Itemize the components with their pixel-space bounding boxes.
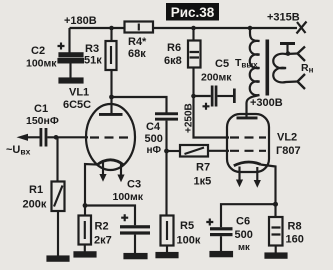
- svg-text:VL1: VL1: [69, 87, 89, 99]
- ground (C6): [211, 252, 233, 256]
- svg-text:+180В: +180В: [64, 15, 97, 27]
- VL1 heater arrows: [99, 163, 124, 183]
- wire +250V to screen grid g2: [194, 96, 230, 138]
- svg-text:68к: 68к: [128, 48, 146, 60]
- svg-text:R2: R2: [95, 221, 109, 233]
- VL1 grid (dashed): [90, 136, 131, 138]
- node R6 top junction dot: [191, 26, 196, 31]
- svg-text:2к7: 2к7: [94, 235, 112, 247]
- ground (R5): [157, 253, 178, 257]
- transformer primary winding: [247, 28, 260, 117]
- svg-text:R1: R1: [29, 184, 43, 196]
- svg-text:6С5С: 6С5С: [63, 99, 91, 111]
- svg-text:100к: 100к: [177, 235, 201, 247]
- VL2 cathode: [234, 162, 261, 166]
- capacitor C2: [58, 28, 84, 79]
- resistor R6: [188, 28, 201, 96]
- svg-text:6к8: 6к8: [164, 55, 182, 67]
- resistor R7: [167, 145, 230, 157]
- svg-text:150нФ: 150нФ: [26, 115, 59, 127]
- resistor R2: [79, 206, 92, 253]
- svg-text:R8: R8: [288, 221, 302, 233]
- resistor R1: [52, 137, 65, 256]
- svg-text:Рис.38: Рис.38: [171, 5, 215, 20]
- node cathode/C6/R8 junction dot: [273, 202, 278, 207]
- resistor R3: [106, 28, 117, 97]
- svg-text:160: 160: [286, 234, 304, 246]
- resistor R4: [125, 22, 154, 33]
- svg-text:R5: R5: [180, 220, 194, 232]
- title Pic.38: [166, 3, 219, 21]
- tube VL1 envelope: [86, 104, 135, 170]
- ground (C3): [125, 254, 147, 258]
- capacitor C4 with wire from VL1 anode: [112, 97, 179, 151]
- node cathode/R2/C3 junction dot: [83, 203, 88, 208]
- resistor R5: [161, 151, 174, 253]
- capacitor C5: [194, 86, 236, 110]
- VL2 heater arrows: [236, 167, 261, 188]
- svg-text:51к: 51к: [84, 55, 102, 67]
- node C1/grid junction dot: [54, 135, 59, 140]
- connector +315V: [297, 22, 307, 34]
- svg-text:100мк: 100мк: [26, 58, 57, 70]
- svg-text:+250В: +250В: [184, 103, 195, 133]
- connector Rn bottom: [298, 74, 306, 89]
- capacitor C1: [40, 128, 89, 147]
- VL1 cathode lead wire: [85, 164, 97, 206]
- node VL1 anode junction dot: [109, 95, 114, 100]
- svg-text:С3: С3: [127, 179, 141, 191]
- svg-text:нФ: нФ: [147, 145, 162, 156]
- terminal T on secondary: [280, 42, 295, 54]
- svg-text:VL2: VL2: [277, 132, 297, 144]
- wire +180V rail left: [70, 27, 125, 29]
- svg-text:200мк: 200мк: [201, 72, 232, 84]
- node +180V junction dot: [109, 26, 114, 31]
- transformer core: [266, 40, 270, 96]
- ground (C2): [60, 79, 83, 83]
- VL2 anode: [237, 117, 258, 120]
- VL2 cathode lead wire: [260, 165, 275, 205]
- ground (R8): [266, 254, 287, 258]
- ground (R1): [48, 257, 69, 261]
- svg-text:С2: С2: [31, 45, 45, 57]
- svg-text:100мк: 100мк: [113, 191, 144, 203]
- connector Rn top: [298, 47, 306, 62]
- node transformer top junction dot: [248, 26, 253, 31]
- resistor R8: [269, 204, 283, 253]
- capacitor C3: [85, 206, 150, 255]
- VL1 anode: [99, 97, 123, 116]
- svg-text:+315В: +315В: [267, 12, 300, 24]
- svg-text:мк: мк: [238, 242, 250, 253]
- transformer secondary winding: [273, 54, 297, 83]
- node +250V junction dot: [191, 94, 196, 99]
- svg-text:R7: R7: [196, 162, 210, 174]
- ground (R2): [75, 252, 96, 256]
- node C4/R7/R5 junction dot: [164, 149, 169, 154]
- svg-text:С1: С1: [34, 103, 48, 115]
- capacitor C6: [206, 204, 275, 252]
- svg-text:200к: 200к: [23, 199, 47, 211]
- tube VL2 envelope: [227, 114, 269, 172]
- svg-text:1к5: 1к5: [194, 176, 212, 188]
- svg-text:R3: R3: [85, 43, 99, 55]
- input terminal arrow: [17, 134, 29, 141]
- VL2 screen grid g2 (dashed): [230, 136, 266, 138]
- svg-text:R4*: R4*: [128, 36, 147, 48]
- svg-text:Г807: Г807: [276, 145, 301, 157]
- VL1 cathode: [97, 160, 125, 165]
- svg-text:~Uвх: ~Uвх: [6, 144, 31, 157]
- VL2 control grid g1 (dashed): [230, 150, 266, 152]
- node secondary top junction dot: [286, 51, 291, 56]
- svg-text:С4: С4: [146, 121, 161, 133]
- svg-text:+300В: +300В: [250, 97, 283, 109]
- svg-text:R6: R6: [167, 42, 181, 54]
- svg-text:500: 500: [145, 133, 163, 145]
- wire +315V rail right of R4: [153, 27, 297, 29]
- svg-text:С5: С5: [215, 58, 229, 70]
- wire input: [27, 136, 40, 138]
- svg-text:С6: С6: [236, 216, 250, 228]
- svg-text:500: 500: [235, 229, 253, 241]
